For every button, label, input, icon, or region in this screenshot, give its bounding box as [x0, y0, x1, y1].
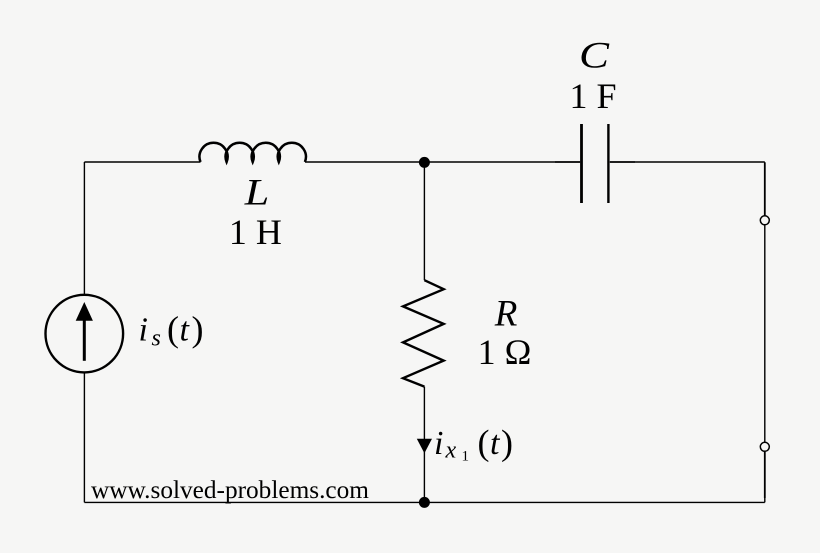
svg-text:R: R [494, 294, 518, 335]
svg-text:1 Ω: 1 Ω [478, 332, 532, 372]
svg-text:C: C [579, 36, 611, 77]
svg-text:): ) [501, 423, 513, 463]
svg-text:(: ( [478, 423, 490, 463]
svg-text:1: 1 [462, 448, 470, 464]
svg-text:1 H: 1 H [229, 212, 282, 252]
svg-text:1 F: 1 F [569, 76, 616, 116]
svg-text:t: t [180, 312, 191, 349]
svg-text:www.solved-problems.com: www.solved-problems.com [91, 476, 369, 504]
svg-text:): ) [192, 309, 204, 349]
svg-text:i: i [434, 425, 443, 462]
svg-text:s: s [152, 326, 161, 352]
svg-text:x: x [445, 437, 457, 463]
svg-text:t: t [490, 425, 501, 462]
svg-text:L: L [244, 172, 270, 213]
svg-text:(: ( [167, 309, 179, 349]
svg-text:i: i [139, 312, 148, 349]
